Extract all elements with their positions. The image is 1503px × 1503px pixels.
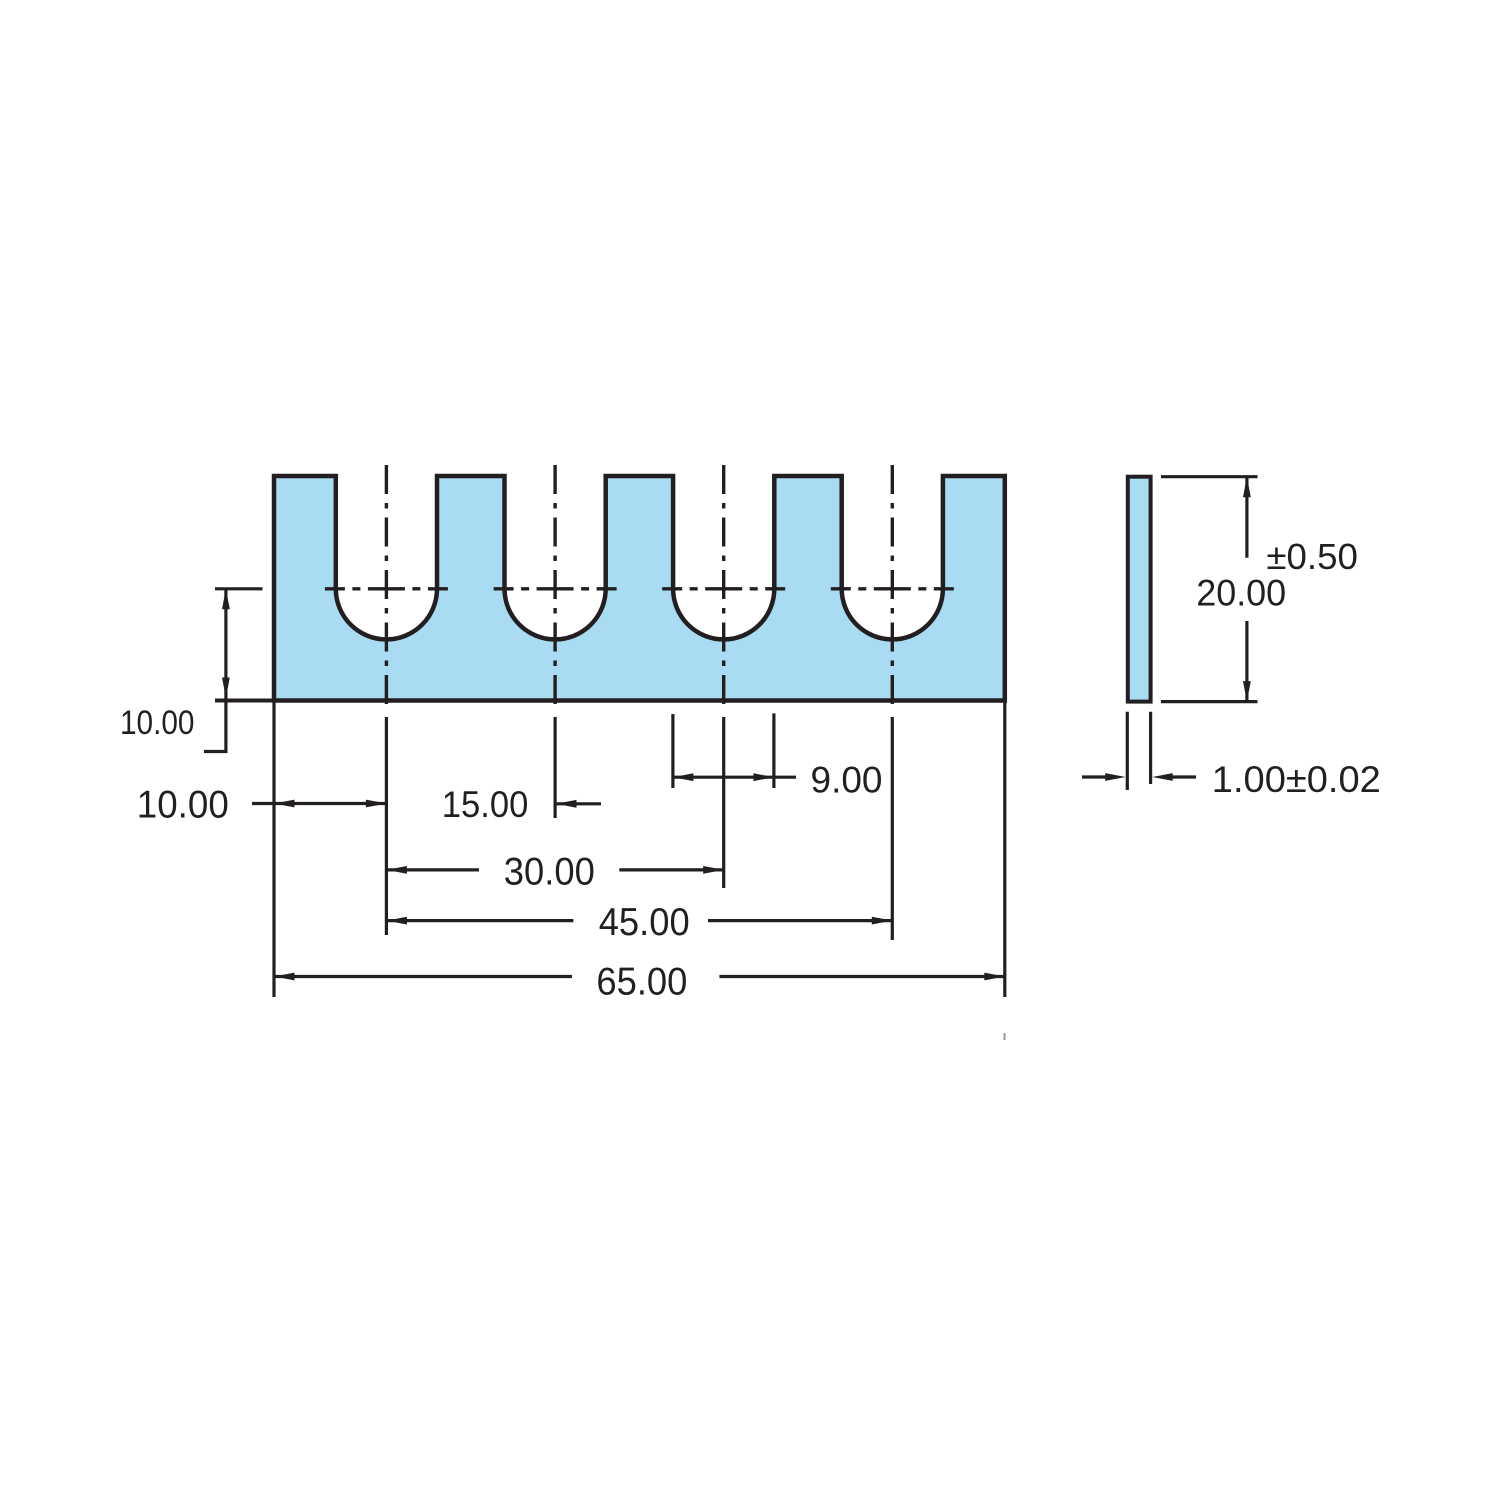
svg-text:1.00±0.02: 1.00±0.02 [1212,759,1381,800]
dim 10.00 horizontal: right arrowhead [366,800,387,808]
svg-text:45.00: 45.00 [599,901,690,944]
dim 15.00: left arrowhead [556,800,577,808]
stray artifact dot [1004,1033,1006,1040]
dim 65.00: right segment with arrowhead [719,975,1004,978]
dim 10.00 vertical: up arrowhead [222,589,230,610]
slot 1 horizontal centerline [325,587,448,590]
dim 45.00: left segment with arrowhead [386,919,573,922]
dim 9.00: dimension line [673,776,774,779]
svg-text:±0.50: ±0.50 [1266,536,1358,577]
svg-text:65.00: 65.00 [596,960,687,1003]
dim 20.00: upper dimension line with up arrowhead [1245,477,1248,558]
slot 3 centerline extension (solid) [722,717,725,888]
front view comb-shaped part outline [274,476,1005,701]
svg-text:10.00: 10.00 [137,783,229,826]
slot 3 vertical centerline [722,465,725,711]
dim 10.00 horizontal: leader [252,802,274,805]
dim 30.00: right segment with arrowhead [619,868,723,871]
svg-text:10.00: 10.00 [120,704,195,742]
slot 3 horizontal centerline [662,587,785,590]
dim 20.00: lower dimension line with down arrowhead [1245,621,1248,702]
dim 15.00: arrow shaft [556,802,601,805]
bottom edge extension to left of front view [215,699,274,703]
dim 1.00: right extension line below side view [1149,712,1152,784]
front view left edge extension line [272,701,275,998]
dim 45.00: right segment with arrowhead [708,919,892,922]
slot 2 vertical centerline [553,465,556,711]
slot 4 centerline extension (solid) [891,717,894,940]
dim 9.00: right arrowhead [753,773,774,781]
dim 10.00 vertical: upper tick at slot centerline level [215,587,263,590]
slot 1 vertical centerline [385,465,388,711]
dim 1.00: left arrow [1082,775,1107,778]
slot 4 vertical centerline [891,465,894,711]
slot 1 centerline extension (solid) [385,717,388,935]
front view right edge extension line [1003,701,1006,998]
dim 30.00: left segment with arrowhead [386,868,479,871]
side view thin plate [1128,477,1151,702]
dim 10.00 horizontal: dimension line [274,802,386,805]
dim 20.00: top extension line [1161,475,1258,478]
slot 2 centerline extension (solid) [553,717,556,818]
dim 10.00 vertical: leader hook [204,701,226,752]
dim 1.00: left extension line below side view [1126,712,1129,790]
dim 1.00: right arrow [1172,775,1196,778]
dim 10.00 horizontal: left arrowhead [274,800,295,808]
dim 9.00: right extension line [772,713,775,788]
svg-text:20.00: 20.00 [1196,572,1286,613]
svg-text:30.00: 30.00 [504,850,595,893]
dim 65.00: left segment with arrowhead [274,975,572,978]
dim 10.00 vertical: down arrowhead [222,678,230,699]
slot 4 horizontal centerline [831,587,954,590]
dim 9.00: leader [774,776,796,779]
dim 10.00 vertical: dimension line [224,589,227,701]
slot 2 horizontal centerline [494,587,617,590]
svg-text:9.00: 9.00 [811,759,883,801]
dim 20.00: bottom extension line [1161,700,1258,703]
svg-text:15.00: 15.00 [442,784,529,825]
dim 9.00: left arrowhead [673,773,694,781]
dim 9.00: left extension line [671,714,674,788]
